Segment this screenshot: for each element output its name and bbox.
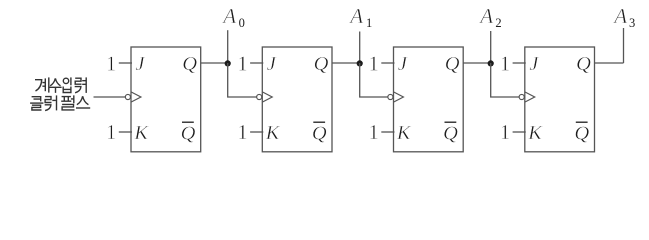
wire: node A2 riser [490,31,492,63]
svg-text:A: A [221,4,236,28]
net label A2 [478,4,501,30]
wire: Q output of U4 to node A3 [595,62,624,64]
svg-text:0: 0 [239,16,245,30]
svg-text:1: 1 [237,120,248,144]
wire: node A2 to clock of U4 [491,63,519,97]
wire: Q output of U2 to node A1 [332,62,360,64]
wire: node A1 riser [359,32,361,64]
net label A3 [612,4,635,30]
svg-text:K: K [265,122,281,144]
net label A0 [221,4,245,30]
svg-text:Q: Q [182,53,197,75]
wire: clock pulse input feed [94,96,126,98]
wire: Q output of U3 to node A2 [463,62,491,64]
svg-text:Q: Q [314,53,329,75]
svg-text:K: K [133,122,149,144]
svg-text:1: 1 [368,51,379,75]
svg-text:Q: Q [576,53,591,75]
wire: Q output of U1 to node A0 [201,62,228,64]
wire: K input stub (U3) [381,131,394,133]
wire: J input stub (U2) [250,62,263,64]
wire: node A0 riser [227,30,229,63]
svg-text:J: J [267,53,277,75]
JK flip-flop U1 body [131,47,201,152]
svg-text:1: 1 [368,120,379,144]
svg-text:J: J [135,53,145,75]
wire: J input stub (U3) [381,62,394,64]
svg-text:A: A [348,4,363,28]
clock bubble U3 [388,94,393,99]
JK flip-flop U2 body [262,47,332,152]
svg-text:2: 2 [495,16,501,30]
svg-text:Q: Q [181,123,196,145]
JK flip-flop U3 body [394,47,464,152]
net label A1 [348,4,372,30]
wire: J input stub (U4) [513,62,526,64]
svg-text:Q: Q [312,123,327,145]
svg-text:1: 1 [237,51,248,75]
junction dot at node A2 [488,60,494,66]
junction dot at node A0 [225,60,231,66]
pin label Q-bar (U1) [181,122,196,144]
pin label Q-bar (U4) [574,122,589,144]
wire: J input stub (U1) [119,62,132,64]
clock bubble U1 [125,94,130,99]
wire: K input stub (U4) [513,131,526,133]
clock edge triangle U3 [394,92,404,102]
svg-text:3: 3 [629,16,635,30]
svg-text:1: 1 [500,51,511,75]
svg-text:J: J [529,53,539,75]
svg-text:J: J [398,53,408,75]
pin label Q-bar (U3) [443,122,458,144]
label: clock input text "계수입력 클럭 펄스" [30,77,90,110]
svg-text:Q: Q [443,123,458,145]
svg-text:1: 1 [106,51,117,75]
svg-text:Q: Q [445,53,460,75]
pin label Q-bar (U2) [312,122,327,144]
clock bubble U4 [519,94,524,99]
svg-text:K: K [396,122,412,144]
svg-text:1: 1 [500,120,511,144]
clock edge triangle U1 [131,92,141,102]
clock edge triangle U2 [262,92,272,102]
clock bubble U2 [257,94,262,99]
wire: node A0 to clock of U2 [228,63,257,97]
svg-text:1: 1 [106,120,117,144]
svg-text:A: A [478,4,493,28]
clock edge triangle U4 [525,92,535,102]
wire: K input stub (U2) [250,131,263,133]
svg-text:A: A [612,4,627,28]
svg-text:Q: Q [574,123,589,145]
JK flip-flop U4 body [525,47,595,152]
svg-text:1: 1 [366,16,372,30]
wire: K input stub (U1) [119,131,132,133]
junction dot at node A1 [357,60,363,66]
svg-text:K: K [527,122,543,144]
wire: node A1 to clock of U3 [360,63,388,97]
wire: node A3 riser [623,28,625,63]
